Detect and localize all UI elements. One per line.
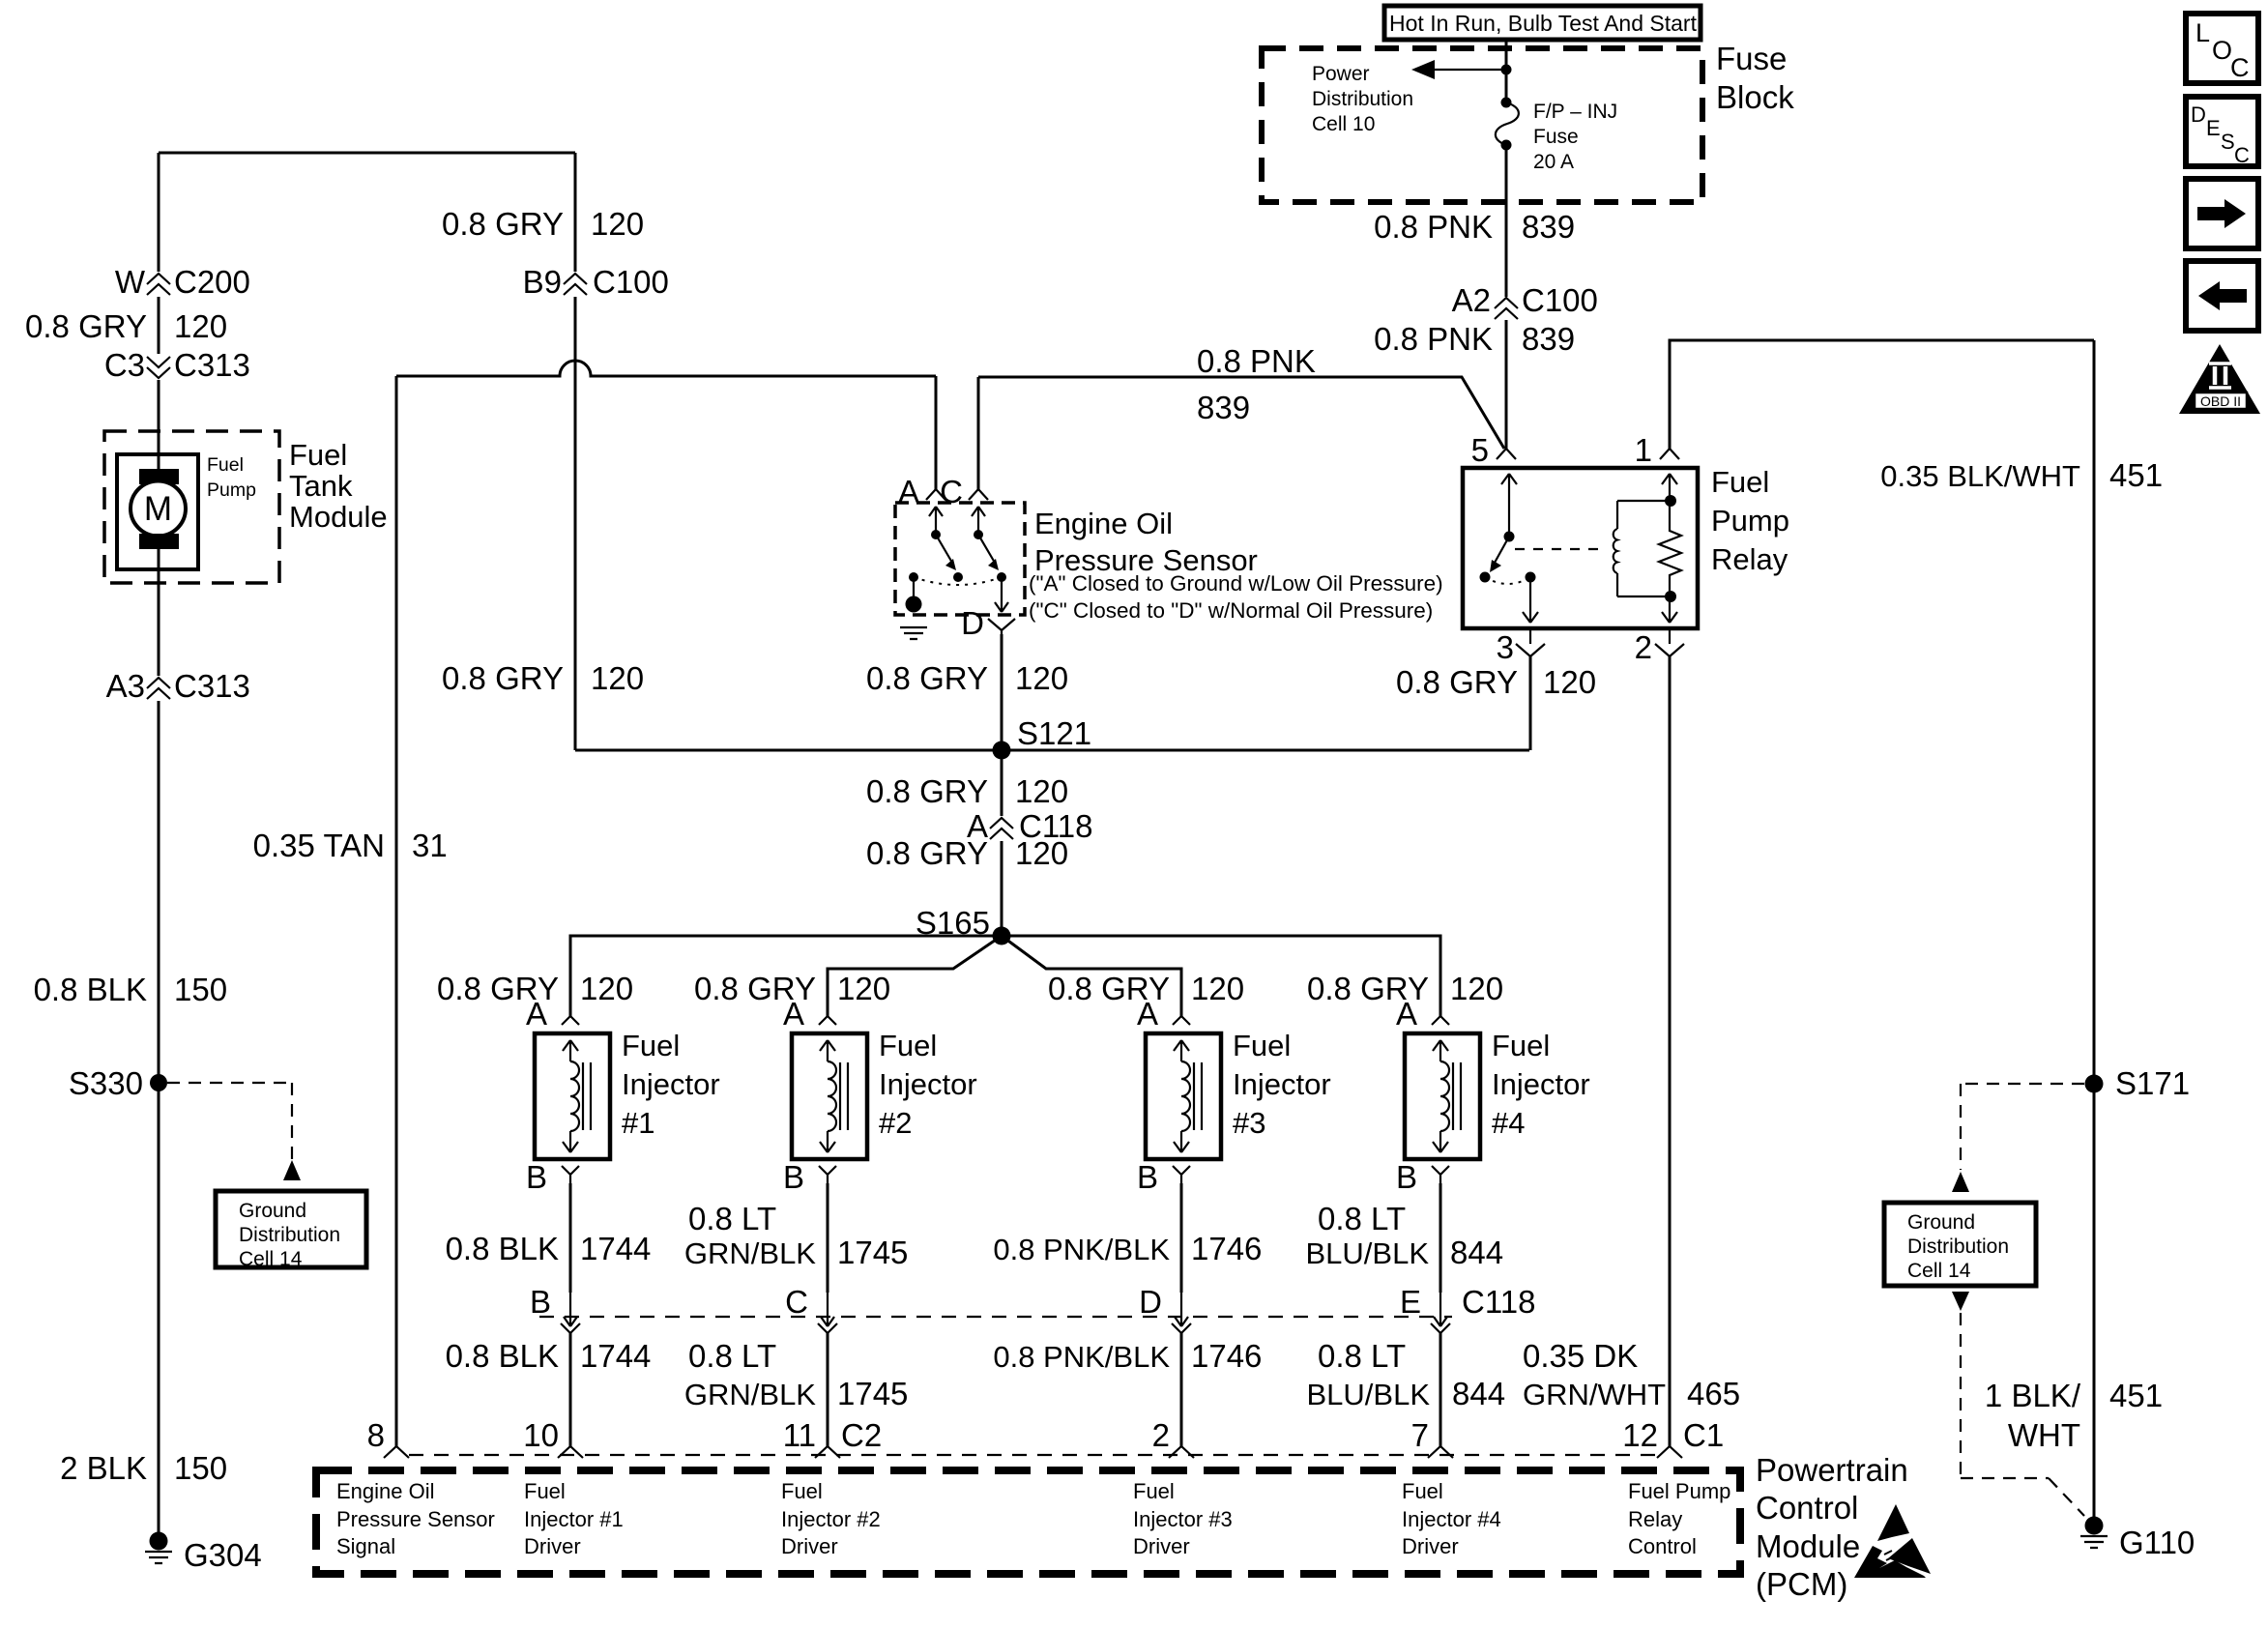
svg-text:B: B: [530, 1284, 551, 1320]
fuel tank module dashed box: [104, 431, 279, 583]
svg-text:C: C: [2234, 143, 2250, 167]
svg-text:Ground: Ground: [1907, 1211, 1975, 1234]
svg-text:844: 844: [1450, 1235, 1503, 1270]
label Fuel Injector 4: [1492, 1029, 1590, 1140]
connector pin B injector 1: [526, 1159, 579, 1195]
relay linkage dashes: [1515, 548, 1601, 550]
svg-text:120: 120: [1015, 660, 1068, 696]
fuse block dashed box: [1262, 48, 1702, 202]
wire fuse to A2 C100: [1505, 145, 1508, 297]
svg-text:Driver: Driver: [524, 1534, 581, 1558]
svg-text:2: 2: [1152, 1417, 1170, 1453]
svg-text:A: A: [783, 996, 804, 1032]
svg-text:Module: Module: [1756, 1528, 1860, 1564]
svg-text:465: 465: [1687, 1376, 1740, 1411]
label 0.8 LT GRN/BLK 1745 (lower): [684, 1338, 909, 1411]
ESD warning symbol: [1854, 1504, 1931, 1578]
wire 0.35 BLK/WHT 451 right side: [2093, 340, 2096, 1526]
wire S330 to G304: [158, 1083, 160, 1541]
wire S121 horizontal: [575, 749, 1529, 752]
label sensor notes: [1029, 571, 1443, 623]
svg-text:C2: C2: [841, 1417, 882, 1453]
node S121: [993, 715, 1092, 760]
wire sensor pin A drop: [935, 376, 938, 489]
svg-text:Fuel: Fuel: [1402, 1479, 1443, 1503]
wire injector 1 to C118 B: [569, 1183, 572, 1293]
svg-text:1746: 1746: [1191, 1338, 1262, 1374]
svg-text:0.8 GRY: 0.8 GRY: [866, 660, 988, 696]
wire top horizontal fuel pump feed: [159, 152, 575, 155]
label 0.8 GRY 120 (injector 4): [1307, 971, 1503, 1006]
PCM internal label fuel injector 3 driver: [1133, 1479, 1233, 1558]
fuel injector 2: [792, 1033, 867, 1159]
label 0.8 LT BLU/BLK 844 (upper): [1305, 1201, 1503, 1270]
engine oil pressure sensor dashed box: [895, 503, 1025, 615]
svg-text:Block: Block: [1716, 79, 1794, 115]
connector A C118: [967, 808, 1092, 844]
connector PCM dashed line: [409, 1454, 1657, 1456]
svg-text:S: S: [2221, 130, 2235, 154]
svg-text:8: 8: [367, 1417, 385, 1453]
svg-text:0.8 LT: 0.8 LT: [1318, 1201, 1406, 1236]
svg-text:0.8 GRY: 0.8 GRY: [442, 206, 564, 242]
svg-text:120: 120: [580, 971, 633, 1006]
connector pin A of sensor: [898, 474, 945, 509]
svg-text:1746: 1746: [1191, 1231, 1262, 1266]
wire E to PCM pin 7: [1439, 1333, 1442, 1446]
svg-text:0.8 LT: 0.8 LT: [1318, 1338, 1406, 1374]
wire S165 branch to injector 3: [1002, 936, 1181, 1016]
svg-text:1744: 1744: [580, 1231, 651, 1266]
svg-text:Signal: Signal: [336, 1534, 395, 1558]
connector pin B injector 2: [783, 1159, 836, 1195]
svg-text:0.8 PNK: 0.8 PNK: [1197, 343, 1316, 379]
svg-text:0.35 DK: 0.35 DK: [1523, 1338, 1638, 1374]
svg-text:F/P – INJ: F/P – INJ: [1533, 101, 1617, 123]
fuel injector 3: [1146, 1033, 1221, 1159]
connector pin 12 C1 at PCM: [1622, 1417, 1724, 1458]
wire C to PCM pin 11: [827, 1333, 829, 1446]
sensor pin D exit: [961, 577, 1015, 641]
svg-text:C313: C313: [174, 668, 250, 704]
svg-text:1: 1: [1635, 432, 1652, 468]
label 0.8 PNK 839 (horizontal run): [1197, 343, 1316, 425]
label 0.35 DK GRN/WHT 465: [1523, 1338, 1740, 1411]
svg-text:2: 2: [1635, 629, 1652, 665]
relay pin2 internal: [1662, 596, 1677, 623]
svg-text:Relay: Relay: [1628, 1507, 1682, 1531]
node S330: [69, 1065, 167, 1101]
connector pin A injector 4: [1396, 996, 1449, 1032]
svg-text:2 BLK: 2 BLK: [60, 1450, 147, 1486]
svg-text:839: 839: [1197, 390, 1250, 425]
PCM internal label fuel pump relay control: [1628, 1479, 1730, 1558]
svg-text:Injector: Injector: [879, 1067, 977, 1101]
connector C118 dashed line: [539, 1316, 1452, 1318]
label 0.8 PNK/BLK 1746 (upper): [993, 1231, 1262, 1266]
dashed reference S171 to ground distribution cell 14: [1952, 1084, 2084, 1192]
connector C at C118: [785, 1284, 837, 1333]
svg-text:C100: C100: [1522, 282, 1598, 318]
svg-text:Distribution: Distribution: [1907, 1236, 2009, 1258]
label Fuse Block: [1716, 41, 1794, 115]
svg-text:120: 120: [591, 660, 644, 696]
wire D to PCM pin 2: [1180, 1333, 1183, 1446]
svg-text:Power: Power: [1312, 63, 1370, 85]
fuel pump inner box: [117, 454, 198, 569]
svg-text:C100: C100: [593, 264, 669, 300]
svg-text:10: 10: [523, 1417, 559, 1453]
svg-text:120: 120: [837, 971, 890, 1006]
wire injector 3 to C118 D: [1180, 1183, 1183, 1293]
svg-text:120: 120: [1450, 971, 1503, 1006]
wire A3 C313 to S330: [158, 701, 160, 1083]
svg-text:Fuel: Fuel: [289, 438, 347, 472]
svg-text:Driver: Driver: [781, 1534, 838, 1558]
svg-text:0.8 BLK: 0.8 BLK: [446, 1231, 559, 1266]
wire sensor pin C drop: [977, 377, 980, 489]
svg-text:Fuel: Fuel: [207, 454, 244, 476]
svg-text:C3: C3: [104, 347, 145, 383]
svg-text:GRN/BLK: GRN/BLK: [684, 1236, 816, 1270]
svg-text:B: B: [1396, 1159, 1417, 1195]
svg-text:0.8 PNK/BLK: 0.8 PNK/BLK: [993, 1233, 1170, 1266]
svg-text:120: 120: [1543, 664, 1596, 700]
svg-text:0.8 GRY: 0.8 GRY: [866, 835, 988, 871]
svg-text:GRN/BLK: GRN/BLK: [684, 1378, 816, 1411]
wire motor down to A3 C313: [158, 541, 160, 676]
svg-text:120: 120: [1191, 971, 1244, 1006]
svg-text:#2: #2: [879, 1106, 912, 1140]
icon OBD II triangle: [2179, 344, 2260, 414]
svg-text:BLU/BLK: BLU/BLK: [1306, 1378, 1430, 1411]
wire C118 to S165: [1001, 841, 1003, 936]
svg-text:5: 5: [1471, 432, 1489, 468]
connector pin 7 at PCM: [1411, 1417, 1453, 1458]
ground G304: [145, 1532, 262, 1574]
svg-text:120: 120: [174, 308, 227, 344]
svg-text:Cell 14: Cell 14: [1907, 1260, 1971, 1282]
svg-text:BLU/BLK: BLU/BLK: [1305, 1236, 1429, 1270]
svg-text:839: 839: [1522, 321, 1575, 357]
svg-text:Distribution: Distribution: [1312, 88, 1413, 110]
svg-text:B: B: [783, 1159, 804, 1195]
svg-text:D: D: [961, 605, 984, 641]
icon left-arrow button: [2186, 261, 2258, 331]
fuel injector 4: [1405, 1033, 1480, 1159]
connector pin 11 C2 at PCM: [783, 1417, 882, 1458]
svg-text:11: 11: [783, 1417, 816, 1453]
svg-text:B: B: [1137, 1159, 1158, 1195]
svg-text:1745: 1745: [837, 1376, 908, 1411]
connector pin 3 of relay: [1497, 628, 1545, 665]
svg-text:Control: Control: [1756, 1490, 1858, 1526]
svg-text:1 BLK/: 1 BLK/: [1985, 1378, 2081, 1413]
svg-text:0.8 PNK: 0.8 PNK: [1374, 209, 1493, 245]
svg-text:7: 7: [1411, 1417, 1429, 1453]
svg-text:0.8 GRY: 0.8 GRY: [866, 773, 988, 809]
icon DESC button: [2186, 97, 2258, 167]
label Power Distribution Cell 10: [1312, 63, 1413, 135]
wire 0.35 TAN vertical to PCM pin 8: [395, 376, 398, 1446]
svg-text:451: 451: [2109, 1378, 2163, 1413]
svg-text:D: D: [1139, 1284, 1162, 1320]
label 0.8 GRY 120 (relay pin 3): [1396, 664, 1596, 700]
relay coil: [1614, 495, 1676, 602]
PCM internal label engine oil pressure sensor signal: [336, 1479, 495, 1558]
svg-text:Injector #3: Injector #3: [1133, 1507, 1233, 1531]
svg-text:S121: S121: [1017, 715, 1091, 751]
fuel injector 1: [535, 1033, 610, 1159]
svg-text:WHT: WHT: [2008, 1417, 2080, 1453]
svg-text:C313: C313: [174, 347, 250, 383]
svg-text:A: A: [1396, 996, 1417, 1032]
connector W C200: [115, 264, 250, 300]
svg-text:0.8 LT: 0.8 LT: [688, 1338, 776, 1374]
svg-text:Pressure Sensor: Pressure Sensor: [336, 1507, 495, 1531]
node S165: [916, 905, 1011, 945]
connector pin 2 of relay: [1635, 628, 1684, 665]
svg-text:Injector #4: Injector #4: [1402, 1507, 1501, 1531]
label 0.8 GRY 120 (injector 3): [1048, 971, 1244, 1006]
label 0.8 GRY 120 (injector 1): [437, 971, 633, 1006]
wire C200 to C313: [158, 297, 160, 354]
relay resistor: [1659, 501, 1681, 596]
label Fuel Injector 3: [1233, 1029, 1331, 1140]
svg-text:#4: #4: [1492, 1106, 1525, 1140]
svg-text:0.8 LT: 0.8 LT: [688, 1201, 776, 1236]
label 0.8 BLK 150: [34, 972, 227, 1007]
connector B at C118: [530, 1284, 580, 1333]
svg-text:S330: S330: [69, 1065, 143, 1101]
svg-text:Driver: Driver: [1402, 1534, 1459, 1558]
svg-text:Engine Oil: Engine Oil: [336, 1479, 435, 1503]
dashed reference ground distribution to G110: [1952, 1292, 2084, 1516]
svg-text:M: M: [144, 490, 172, 528]
svg-text:Distribution: Distribution: [239, 1224, 340, 1246]
wire from header into fuse block: [1505, 40, 1508, 98]
label 0.35 BLK/WHT 451: [1880, 457, 2163, 493]
label 0.8 GRY 120 (injector 2): [694, 971, 890, 1006]
svg-text:C118: C118: [1462, 1284, 1535, 1320]
svg-text:120: 120: [591, 206, 644, 242]
svg-text:0.8 GRY: 0.8 GRY: [442, 660, 564, 696]
svg-text:150: 150: [174, 1450, 227, 1486]
svg-text:G304: G304: [184, 1537, 262, 1573]
svg-text:A3: A3: [106, 668, 145, 704]
svg-text:E: E: [2206, 116, 2221, 140]
fuel pump relay box: [1463, 468, 1698, 628]
svg-text:Fuel: Fuel: [1492, 1029, 1550, 1062]
label 0.35 TAN 31: [253, 828, 448, 863]
svg-text:12: 12: [1622, 1417, 1658, 1453]
svg-text:W: W: [115, 264, 146, 300]
svg-text:Injector: Injector: [1233, 1067, 1331, 1101]
svg-text:31: 31: [412, 828, 448, 863]
svg-text:Cell 10: Cell 10: [1312, 113, 1375, 135]
label 0.8 PNK/BLK 1746 (lower): [993, 1338, 1262, 1374]
svg-text:839: 839: [1522, 209, 1575, 245]
svg-text:Fuse: Fuse: [1533, 126, 1579, 148]
label 0.8 GRY 120 (left): [25, 308, 227, 344]
svg-text:451: 451: [2109, 457, 2163, 493]
svg-text:C: C: [785, 1284, 808, 1320]
wire injector 2 to C118 C: [827, 1183, 829, 1293]
wire S165 branch to injector 2: [828, 936, 1002, 1016]
svg-text:Hot In Run, Bulb Test And Star: Hot In Run, Bulb Test And Start: [1389, 11, 1698, 36]
wire relay pin 1 up and over to right side: [1670, 340, 2094, 449]
svg-text:20 A: 20 A: [1533, 151, 1574, 173]
label Engine Oil Pressure Sensor: [1034, 507, 1258, 577]
svg-text:G110: G110: [2119, 1525, 2195, 1560]
connector pin 2 at PCM: [1152, 1417, 1194, 1458]
svg-text:1744: 1744: [580, 1338, 651, 1374]
svg-text:Fuel: Fuel: [1711, 465, 1769, 499]
connector pin 10 at PCM: [523, 1417, 583, 1458]
label 0.8 LT GRN/BLK 1745 (upper): [684, 1201, 909, 1270]
connector pin B injector 3: [1137, 1159, 1190, 1195]
svg-text:("C" Closed to "D" w/Normal Oi: ("C" Closed to "D" w/Normal Oil Pressure…: [1029, 598, 1433, 623]
label 0.8 PNK 839 (above A2): [1374, 209, 1575, 245]
svg-text:Injector #1: Injector #1: [524, 1507, 624, 1531]
svg-text:#1: #1: [622, 1106, 654, 1140]
label Fuel Tank Module: [289, 438, 388, 534]
svg-text:(PCM): (PCM): [1756, 1566, 1847, 1602]
label Fuel Injector 1: [622, 1029, 720, 1140]
wire A2 C100 to relay pin 5: [1505, 320, 1508, 449]
label 0.8 BLK 1744 (lower): [446, 1338, 652, 1374]
svg-text:Fuel: Fuel: [879, 1029, 937, 1062]
fuel pump motor M: [131, 469, 186, 549]
label 0.8 LT BLU/BLK 844 (lower): [1306, 1338, 1505, 1411]
svg-text:0.8 PNK: 0.8 PNK: [1374, 321, 1493, 357]
svg-text:Injector: Injector: [1492, 1067, 1590, 1101]
wire C313 to fuel pump motor: [158, 380, 160, 474]
svg-text:Fuel: Fuel: [524, 1479, 566, 1503]
label 0.8 PNK 839 (below A2): [1374, 321, 1575, 357]
ground distribution cell 14 box (left): [216, 1191, 366, 1270]
junction dot in fuse block: [1501, 65, 1512, 75]
label 0.8 BLK 1744 (upper): [446, 1231, 652, 1266]
svg-text:3: 3: [1497, 629, 1514, 665]
label Fuel Pump Relay: [1711, 465, 1789, 576]
label Powertrain Control Module (PCM): [1756, 1452, 1908, 1602]
ground distribution cell 14 box (right): [1884, 1203, 2036, 1286]
label 2 BLK 150: [60, 1450, 227, 1486]
svg-text:0.35 BLK/WHT: 0.35 BLK/WHT: [1880, 459, 2080, 493]
relay switch: [1480, 474, 1539, 623]
PCM internal label fuel injector 1 driver: [524, 1479, 624, 1558]
svg-text:A: A: [1137, 996, 1158, 1032]
label Fuel Pump (small): [207, 454, 256, 501]
svg-text:Injector #2: Injector #2: [781, 1507, 881, 1531]
svg-text:0.8 GRY: 0.8 GRY: [1396, 664, 1518, 700]
svg-text:Engine Oil: Engine Oil: [1034, 507, 1173, 540]
connector pin A injector 2: [783, 996, 836, 1032]
svg-text:0.8 BLK: 0.8 BLK: [34, 972, 147, 1007]
svg-text:Fuel: Fuel: [622, 1029, 680, 1062]
node S171: [2085, 1065, 2191, 1101]
svg-text:A2: A2: [1452, 282, 1491, 318]
label Fuel Injector 2: [879, 1029, 977, 1140]
powertrain control module dashed box: [316, 1470, 1740, 1574]
connector C3 C313: [104, 347, 250, 383]
wire top feed down to B9 C100: [574, 153, 577, 272]
connector A2 C100: [1452, 282, 1598, 319]
arrow to power distribution: [1411, 60, 1506, 79]
svg-text:0.8 GRY: 0.8 GRY: [25, 308, 147, 344]
label 0.8 GRY 120 (above S121): [866, 660, 1068, 696]
wire B9 C100 down to S121 horizontal: [574, 297, 577, 750]
svg-text:Tank: Tank: [289, 469, 353, 503]
svg-text:GRN/WHT: GRN/WHT: [1523, 1378, 1666, 1411]
wire relay pin 2 down to PCM pin 12: [1669, 656, 1672, 1446]
svg-text:#3: #3: [1233, 1106, 1265, 1140]
PCM internal label fuel injector 2 driver: [781, 1479, 881, 1558]
label 0.8 GRY 120 (above S121 horizontal): [442, 660, 644, 696]
wire pin D to S121: [1001, 634, 1003, 750]
svg-text:Pump: Pump: [1711, 504, 1789, 538]
svg-text:0.8 PNK/BLK: 0.8 PNK/BLK: [993, 1340, 1170, 1374]
svg-text:Relay: Relay: [1711, 542, 1788, 576]
wire injector 4 to C118 E: [1439, 1183, 1442, 1293]
sensor internal ground: [900, 577, 927, 639]
sensor contacts and dotted throw: [909, 572, 1006, 585]
svg-text:0.35 TAN: 0.35 TAN: [253, 828, 385, 863]
connector B9 C100: [523, 264, 669, 300]
label 0.8 GRY 120 (below C118): [866, 835, 1068, 871]
svg-text:Module: Module: [289, 500, 388, 534]
connector pin A injector 1: [526, 996, 579, 1032]
wire 0.35 TAN horizontal with hop over GRY feed: [396, 361, 936, 376]
svg-text:120: 120: [1015, 773, 1068, 809]
svg-text:1745: 1745: [837, 1235, 908, 1270]
sensor switch C arm: [972, 507, 999, 570]
wire fuel pump to C200: [158, 153, 160, 272]
svg-text:S171: S171: [2115, 1065, 2190, 1101]
svg-text:Pump: Pump: [207, 480, 256, 501]
connector pin B injector 4: [1396, 1159, 1449, 1195]
svg-text:844: 844: [1452, 1376, 1505, 1411]
wire B to PCM pin 10: [569, 1333, 572, 1446]
svg-text:OBD II: OBD II: [2200, 393, 2241, 409]
PCM internal label fuel injector 4 driver: [1402, 1479, 1501, 1558]
svg-text:Ground: Ground: [239, 1200, 306, 1222]
svg-text:Injector: Injector: [622, 1067, 720, 1101]
wire S121 to C118: [1001, 750, 1003, 816]
svg-text:Driver: Driver: [1133, 1534, 1190, 1558]
svg-text:0.8 BLK: 0.8 BLK: [446, 1338, 559, 1374]
connector D at C118: [1139, 1284, 1191, 1333]
svg-text:120: 120: [1015, 835, 1068, 871]
svg-text:L: L: [2195, 18, 2210, 47]
wire relay pin 3 to S121 horizontal: [1529, 656, 1532, 750]
svg-text:D: D: [2191, 102, 2206, 127]
label F/P - INJ Fuse 20 A: [1533, 101, 1617, 173]
svg-text:("A" Closed to Ground w/Low Oi: ("A" Closed to Ground w/Low Oil Pressure…: [1029, 571, 1443, 596]
svg-text:O: O: [2212, 36, 2232, 65]
label 0.8 GRY 120 (below S121): [866, 773, 1068, 809]
ground G110: [2080, 1517, 2195, 1561]
header Hot In Run, Bulb Test And Start: [1384, 6, 1701, 40]
fuse F/P-INJ 20A: [1496, 98, 1519, 151]
connector A3 C313: [106, 668, 250, 704]
connector pin 5 of relay: [1471, 432, 1516, 468]
wire S165 branch to injector 1: [570, 936, 1002, 1016]
svg-text:C1: C1: [1683, 1417, 1724, 1453]
label 1 BLK/ WHT 451: [1985, 1378, 2163, 1453]
svg-text:B: B: [526, 1159, 547, 1195]
